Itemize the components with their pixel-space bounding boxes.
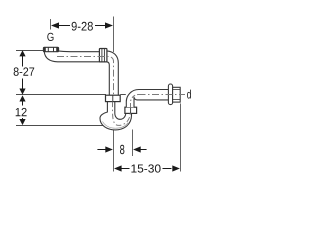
rising branch centerline (131, 95, 139, 108)
cup shading arc (103, 122, 129, 129)
dimension 8 (bottom) (97, 146, 146, 152)
dimension 9-28 (top) (51, 22, 113, 28)
inlet pipe from G (horizontal, elbow under nut) (44, 51, 101, 62)
outlet centerline (139, 94, 186, 96)
label 8-27 (14, 67, 35, 75)
G nut (43, 47, 58, 51)
cup outer outline (100, 102, 132, 130)
extension line from wall flange down (180, 104, 182, 172)
rising branch nut (125, 107, 137, 113)
label G (47, 33, 53, 41)
extension line below trap (right branch) (132, 130, 134, 157)
label d (187, 90, 191, 99)
extension line top right (from elbow up to 9-28) (113, 17, 115, 53)
label 8 (120, 145, 124, 154)
extension line at trap bottom centerline (16, 125, 106, 127)
cup centerline arc (113, 102, 131, 126)
label 9-28 (72, 22, 93, 31)
label 15-30 (131, 164, 160, 172)
extension line below trap (inlet centerline) (113, 130, 115, 172)
dimension 12 (left) (19, 95, 25, 125)
cup inner wall (115, 102, 126, 120)
extension line from G centerline (left) (16, 50, 43, 52)
wall stub (173, 87, 181, 102)
inlet pipe centerline (57, 57, 114, 96)
elbow (inlet to vertical) (100, 51, 118, 96)
wall flange disc (168, 84, 172, 105)
tick left of 9-28 (50, 19, 52, 30)
dimension 15-30 (bottom) (114, 165, 180, 171)
trap cup (U-bend) (100, 102, 132, 130)
coupling nut (top) (99, 49, 107, 62)
outlet elbow and horizontal pipe (126, 89, 168, 107)
label 12 (16, 108, 27, 116)
inlet nut (trap top) (106, 95, 121, 101)
dimension 8-27 (left) (19, 50, 25, 94)
extension line at outlet centerline y=95 (16, 94, 106, 96)
